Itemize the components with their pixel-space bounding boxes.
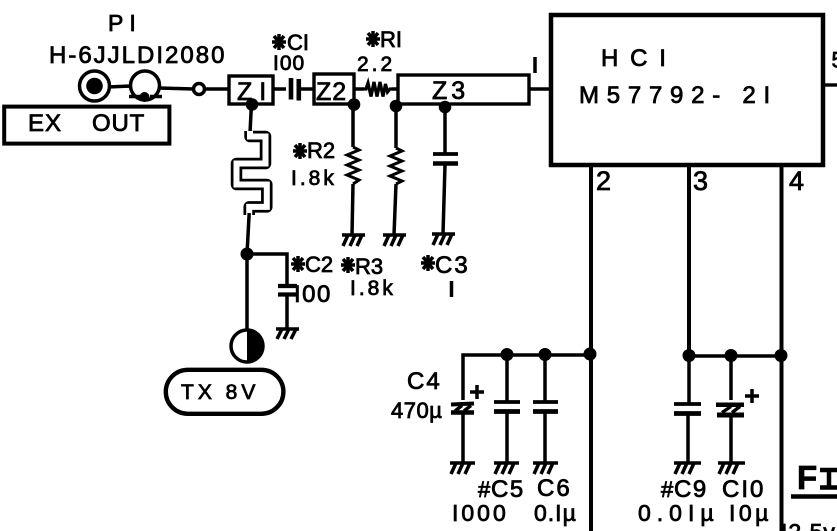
EX OUT box (4, 107, 169, 144)
svg-text:I2.5v: I2.5v (781, 519, 836, 531)
ground C3 (432, 234, 455, 245)
wire Z2 to R1 (353, 87, 364, 91)
connector P1 part number H-6JJLD12080 (49, 42, 226, 69)
ground R2 (342, 235, 365, 246)
svg-text:0.0Iµ: 0.0Iµ (638, 500, 720, 526)
svg-text:C3: C3 (435, 252, 470, 279)
wire pin 4 continues down (780, 356, 784, 531)
connector P1 label (108, 10, 142, 36)
svg-text:C9: C9 (674, 476, 708, 503)
node dot pin4 bus (775, 349, 788, 362)
svg-text:C4: C4 (407, 368, 442, 395)
label C5 (452, 476, 525, 526)
wire junction to C2 (247, 254, 287, 285)
filter Z3 (398, 75, 529, 105)
node dot C5 (501, 348, 514, 361)
node dot Z2 bottom (348, 98, 361, 111)
svg-text:0.Iµ: 0.Iµ (534, 500, 577, 526)
wire Z3 to HC1 pin 1 (529, 87, 551, 91)
svg-text:470µ: 470µ (391, 398, 442, 423)
label C4 (391, 368, 442, 423)
svg-text:#: # (661, 477, 674, 502)
svg-text:I00: I00 (273, 52, 305, 75)
label C10 (722, 476, 772, 526)
capacitor C2 (278, 286, 297, 295)
capacitor C5 (494, 355, 520, 462)
node open circle (194, 84, 205, 95)
svg-text:Z2: Z2 (316, 78, 347, 106)
label C2 (291, 252, 333, 308)
wire node to Z1 (205, 87, 230, 91)
wire Z1 to C1 (273, 87, 286, 91)
svg-text:TX 8V: TX 8V (181, 381, 259, 404)
capacitor C1 (291, 78, 299, 101)
node dot Z3 bottom mid (439, 101, 452, 114)
capacitor C6 (533, 355, 558, 462)
resistor R2 (347, 105, 359, 235)
svg-text:C6: C6 (537, 475, 572, 502)
pin 1 label (533, 57, 537, 73)
svg-text:4: 4 (789, 166, 804, 196)
svg-text:I00: I00 (294, 281, 332, 308)
wire plug to node (159, 88, 194, 89)
ground R3 (383, 235, 406, 246)
resistor R3 (390, 106, 402, 235)
svg-text:R2: R2 (307, 138, 335, 163)
ground C2 (276, 329, 299, 339)
hybrid IC HC1 M57792-21 (551, 15, 823, 165)
filter Z2 (314, 74, 354, 106)
node dot C10 (725, 349, 738, 362)
wire jack to plug (108, 86, 132, 87)
svg-text:C5: C5 (491, 476, 525, 503)
label C3 (421, 252, 470, 297)
node dot pin3 bus (683, 349, 696, 362)
bus wire C9 C10 pin4 (689, 354, 782, 358)
svg-text:#: # (478, 477, 491, 502)
wire meander to junction (247, 213, 249, 254)
pin 2 wire (589, 165, 593, 353)
wire C2 to ground (285, 296, 289, 328)
svg-text:RI: RI (380, 27, 402, 52)
svg-text:2.2: 2.2 (357, 53, 395, 76)
node dot junction (241, 248, 254, 261)
TX 8V label (166, 370, 284, 414)
svg-text:M57792- 2I: M57792- 2I (579, 82, 778, 109)
figure caption FI (791, 459, 837, 497)
svg-text:F: F (797, 459, 817, 496)
node dot Z1 bottom (246, 98, 259, 111)
svg-text:HCI: HCI (601, 45, 678, 72)
wire R1 to Z3 (392, 87, 398, 91)
svg-text:CI0: CI0 (722, 476, 765, 503)
ground C4 (450, 463, 475, 474)
connector P1 jack symbol (80, 71, 110, 101)
node dot Z3 bottom left (390, 100, 403, 113)
node dot C6 (539, 348, 552, 361)
wire Z1 down (250, 103, 252, 133)
label C9 (638, 476, 720, 526)
filter Z1 (229, 76, 273, 106)
ground C6 (533, 463, 558, 474)
svg-text:I.8k: I.8k (291, 167, 337, 190)
svg-text:R3: R3 (355, 254, 383, 279)
capacitor C10 electrolytic (716, 356, 759, 462)
wire C1 to Z2 (299, 87, 314, 91)
svg-text:I.8k: I.8k (350, 277, 396, 300)
label R2 (291, 138, 337, 190)
ground C5 (494, 463, 519, 474)
ground C10 (718, 463, 745, 474)
power source half circle (231, 330, 263, 362)
svg-text:C2: C2 (305, 252, 333, 277)
pin 3 wire (687, 165, 691, 356)
label R3 (341, 254, 396, 300)
label C6 (534, 475, 577, 526)
label C1 (272, 30, 309, 75)
svg-text:I000: I000 (452, 500, 509, 526)
pin 4 wire (780, 165, 784, 356)
pin 5 wire (822, 83, 837, 86)
wire junction to TX8V source (245, 254, 249, 330)
svg-text:2: 2 (596, 166, 611, 196)
svg-text:5: 5 (832, 48, 837, 73)
node dot pin2 bus (584, 348, 597, 361)
connector P1 plug symbol (129, 71, 162, 102)
label R1 (357, 27, 402, 76)
svg-text:Z3: Z3 (432, 77, 469, 105)
capacitor C3 (433, 108, 458, 234)
svg-text:I0µ: I0µ (729, 500, 772, 526)
capacitor C9 (674, 356, 701, 462)
svg-text:3: 3 (693, 166, 708, 196)
svg-text:H-6JJLDI2080: H-6JJLDI2080 (49, 42, 226, 69)
ground C9 (674, 463, 701, 474)
wire pin 2 continues down (589, 353, 593, 531)
svg-text:PI: PI (108, 10, 142, 36)
capacitor C4 electrolytic (451, 385, 484, 462)
resistor R1 (364, 82, 392, 97)
bus wire C4 C5 C6 (463, 355, 591, 400)
stripline meander from Z1 (237, 131, 267, 215)
